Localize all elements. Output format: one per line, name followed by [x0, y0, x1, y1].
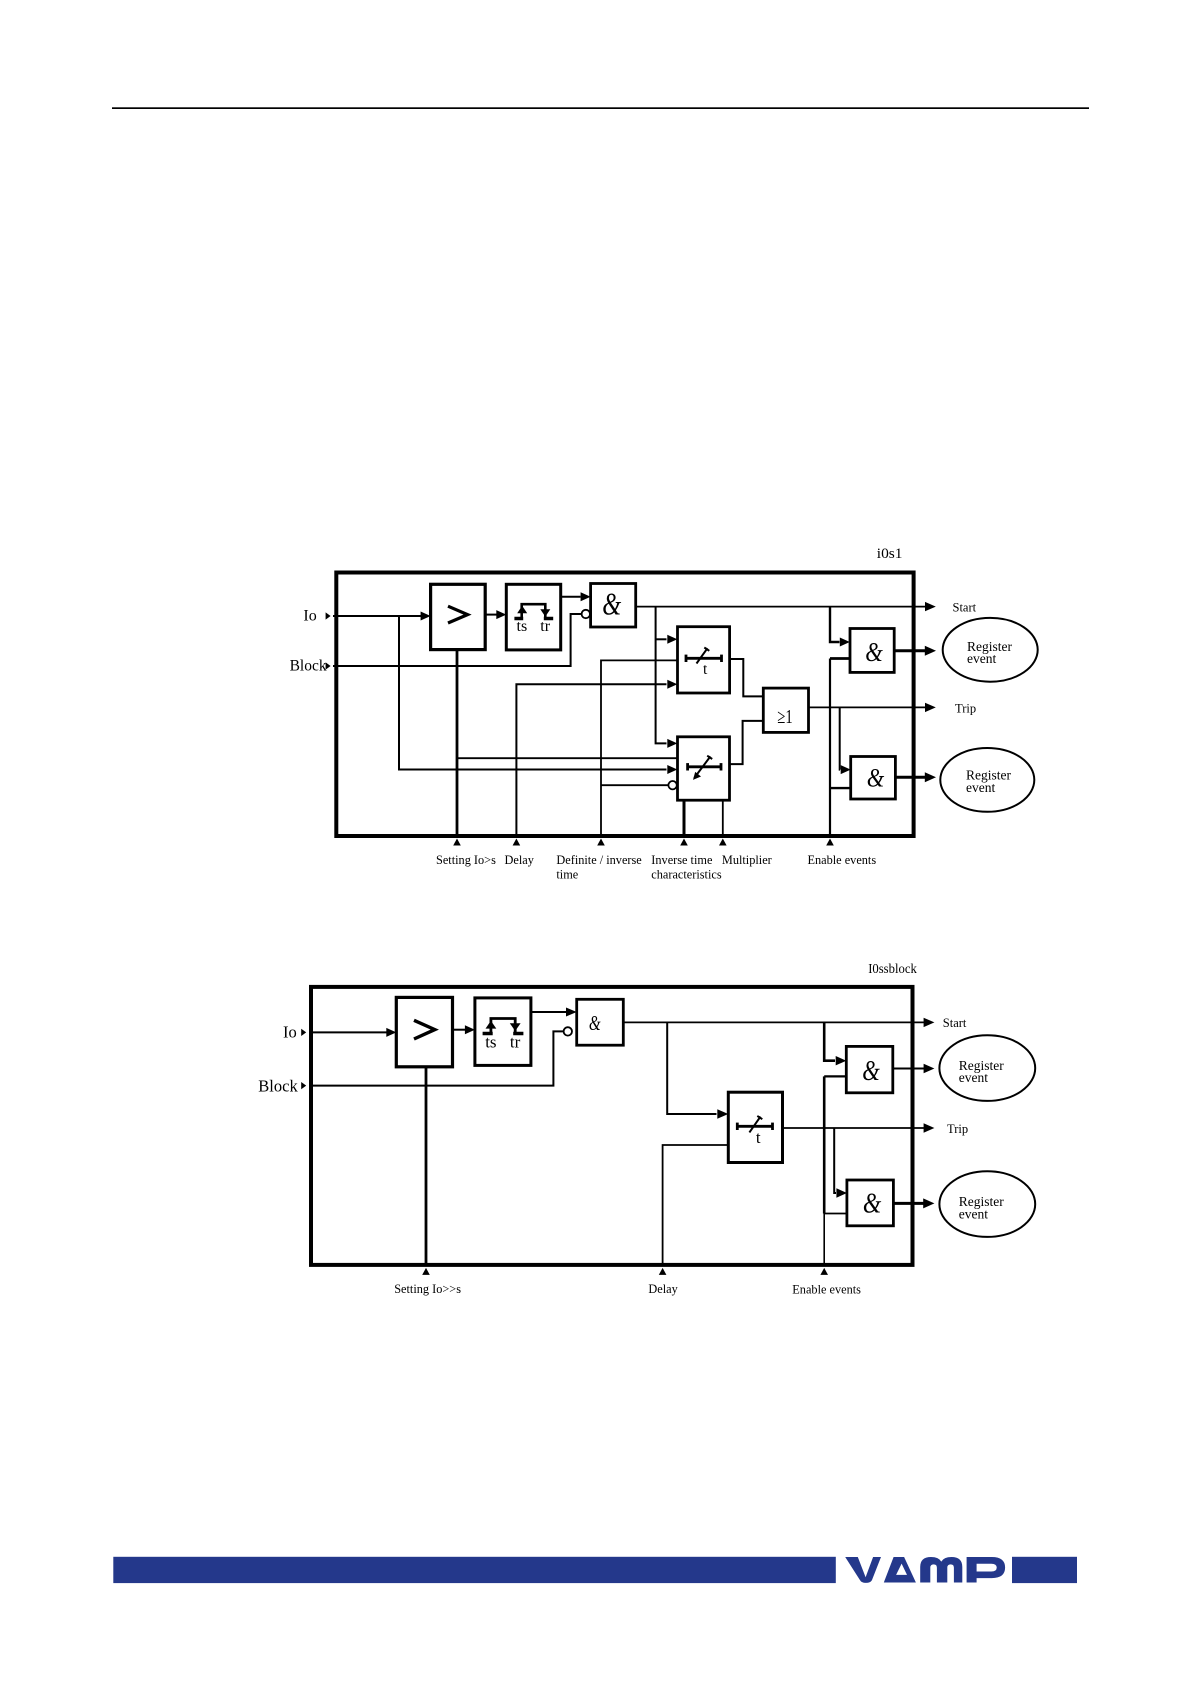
- AND gate U8: [851, 757, 896, 800]
- wire enable to AND U16 input: [824, 1213, 847, 1215]
- wire enable to AND U8 input: [830, 787, 851, 789]
- pin Enable events wire: [823, 1214, 825, 1265]
- pin multiplier: [722, 800, 724, 836]
- input pin marker Block: [326, 662, 331, 669]
- AND gate U15: [846, 1046, 893, 1092]
- AND gate U3: [591, 584, 636, 628]
- pulse timer U12 ts tr: [475, 998, 531, 1066]
- logo letter P: [967, 1557, 1006, 1583]
- inverted input bubble of U3: [582, 610, 590, 618]
- wire Trip output: [809, 706, 926, 708]
- function block boundary i0s1: [336, 573, 913, 837]
- svg-text:I0ssblock: I0ssblock: [868, 962, 917, 977]
- svg-text:&: &: [602, 585, 621, 621]
- svg-text:&: &: [867, 763, 885, 793]
- wire Trip output: [783, 1127, 925, 1129]
- OR gate U7: [763, 688, 808, 732]
- svg-text:Definite / inverse: Definite / inverse: [556, 853, 642, 867]
- svg-text:Trip: Trip: [955, 702, 976, 716]
- svg-text:time: time: [556, 867, 578, 881]
- svg-text:Trip: Trip: [947, 1122, 968, 1136]
- pulse timer U2 ts tr: [506, 584, 560, 650]
- wire Start output: [636, 606, 926, 608]
- svg-text:&: &: [589, 1012, 601, 1035]
- definite time timer U4: [678, 627, 730, 693]
- AND gate U16: [847, 1180, 894, 1226]
- comparator U11 Io>>s: [396, 997, 452, 1066]
- setting pin carets diagram 2: [422, 1268, 828, 1275]
- register event ellipse 3: [939, 1035, 1035, 1101]
- svg-text:characteristics: characteristics: [651, 867, 722, 881]
- comparator U1 Io>s: [431, 584, 486, 649]
- logo letter A: [884, 1557, 916, 1583]
- register event ellipse 4: [939, 1171, 1035, 1237]
- wire Start branch to AND U15: [824, 1022, 835, 1060]
- svg-text:&: &: [863, 1188, 882, 1219]
- svg-text:t: t: [703, 661, 708, 678]
- AND gate U13: [577, 999, 624, 1045]
- inverted input bubble of U13: [564, 1027, 572, 1035]
- pin Delay wire: [663, 1145, 729, 1265]
- wire U8 to register event: [895, 776, 925, 779]
- svg-text:Delay: Delay: [505, 853, 535, 867]
- svg-text:ts: ts: [517, 618, 528, 635]
- svg-text:Io: Io: [283, 1023, 297, 1042]
- svg-text:&: &: [865, 636, 883, 667]
- svg-text:tr: tr: [510, 1032, 521, 1051]
- header rule: [112, 107, 1089, 109]
- wire enable to AND U5 input: [830, 657, 850, 660]
- svg-text:event: event: [967, 651, 996, 666]
- wire inverse timer to OR gate: [730, 721, 764, 764]
- svg-text:Multiplier: Multiplier: [722, 853, 772, 867]
- svg-text:Start: Start: [953, 601, 977, 615]
- wire pulse timer to AND gate U3: [561, 596, 581, 598]
- wire definite timer to OR gate: [730, 659, 764, 696]
- setting labels diagram 2: [394, 1282, 861, 1297]
- footer bar right: [1012, 1557, 1077, 1583]
- svg-text:Start: Start: [943, 1016, 967, 1030]
- svg-text:ts: ts: [485, 1032, 496, 1051]
- wire U3 output to timers: [656, 607, 667, 744]
- input pin marker Io: [301, 1029, 306, 1036]
- wire setting branch to inverse timer: [457, 757, 678, 759]
- wire Start output: [623, 1021, 924, 1023]
- wire U15 to register event: [893, 1068, 924, 1070]
- wire pulse timer to AND gate U13: [531, 1011, 566, 1013]
- svg-text:≥1: ≥1: [777, 706, 792, 728]
- register event ellipse 1: [943, 618, 1038, 682]
- inverted input bubble of inverse timer: [668, 781, 676, 789]
- svg-text:event: event: [966, 780, 995, 795]
- wire comparator to pulse timer: [453, 1029, 465, 1031]
- wire Block to AND gate inverted input: [309, 1031, 564, 1085]
- svg-text:Inverse time: Inverse time: [651, 853, 713, 867]
- function block boundary I0ssblock: [311, 987, 913, 1265]
- svg-text:Setting Io>s: Setting Io>s: [436, 853, 496, 867]
- inverse time timer U6: [678, 737, 730, 800]
- wire U16 to register event: [893, 1202, 924, 1205]
- wire comparator to pulse timer: [485, 614, 496, 616]
- pin Enable events wire: [829, 659, 831, 837]
- node Io branch: [399, 616, 667, 770]
- timer U14: [728, 1092, 782, 1162]
- logo letter M: [920, 1557, 962, 1583]
- pin Setting Io>>s: [425, 1067, 428, 1265]
- svg-text:&: &: [862, 1055, 880, 1087]
- wire U5 to register event: [894, 649, 925, 652]
- wire Trip branch to AND U16: [834, 1128, 836, 1193]
- wire enable to AND U15 input: [824, 1075, 846, 1077]
- svg-text:Block: Block: [258, 1077, 298, 1096]
- pin inverse time characteristics: [683, 800, 686, 836]
- AND gate U5: [850, 629, 894, 673]
- svg-text:i0s1: i0s1: [877, 546, 903, 562]
- wire branch to definite timer input: [656, 638, 667, 640]
- wire U13 output to timer: [667, 1022, 716, 1114]
- wire Block to AND gate inverted input: [333, 614, 581, 666]
- setting pin carets diagram 1: [453, 839, 834, 846]
- wire Start branch to AND U5: [830, 607, 840, 642]
- input pin marker Io: [326, 612, 331, 619]
- svg-text:Delay: Delay: [648, 1282, 678, 1296]
- setting labels diagram 1: [436, 853, 876, 882]
- svg-text:Enable events: Enable events: [808, 853, 877, 867]
- pin Setting Io>s: [456, 650, 459, 836]
- svg-text:Block: Block: [290, 658, 327, 675]
- logo letter V: [845, 1557, 881, 1583]
- footer bar left: [113, 1557, 836, 1583]
- svg-text:event: event: [959, 1070, 988, 1085]
- wire definite select to inverse timer bubble: [601, 784, 668, 786]
- svg-text:Io: Io: [303, 608, 316, 625]
- wire Io to comparator: [333, 615, 422, 617]
- svg-text:Enable events: Enable events: [792, 1283, 861, 1297]
- svg-text:t: t: [756, 1128, 761, 1147]
- pin Definite/inverse time wire: [601, 660, 678, 836]
- register event ellipse 2: [940, 748, 1034, 812]
- svg-text:event: event: [959, 1206, 988, 1221]
- wire Trip branch to AND U8: [839, 707, 841, 769]
- svg-text:Setting Io>>s: Setting Io>>s: [394, 1282, 461, 1296]
- pin Delay wire: [516, 684, 666, 836]
- input pin marker Block: [301, 1082, 306, 1089]
- svg-text:tr: tr: [540, 618, 550, 635]
- wire Io to comparator: [309, 1031, 388, 1033]
